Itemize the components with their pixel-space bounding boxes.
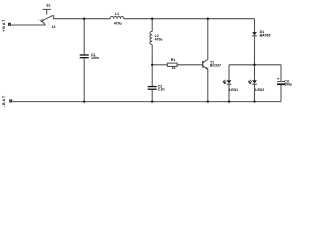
svg-text:1k: 1k	[172, 66, 176, 70]
svg-text:BC337: BC337	[210, 63, 221, 67]
svg-text:L1: L1	[115, 12, 119, 16]
svg-text:100n: 100n	[91, 56, 99, 60]
svg-text:LED1: LED1	[229, 88, 238, 92]
svg-text:12: 12	[52, 25, 56, 29]
svg-text:100u: 100u	[284, 82, 292, 86]
svg-text:470u: 470u	[155, 38, 163, 42]
svg-text:LED2: LED2	[255, 88, 264, 92]
svg-text:-BAT: -BAT	[2, 95, 6, 107]
svg-text:2.2n: 2.2n	[158, 88, 165, 92]
svg-text:R1: R1	[171, 58, 176, 62]
svg-text:BAT85: BAT85	[260, 33, 271, 37]
svg-text:S1: S1	[46, 4, 50, 8]
svg-text:470u: 470u	[114, 22, 122, 26]
svg-text:+BAT: +BAT	[2, 19, 6, 32]
